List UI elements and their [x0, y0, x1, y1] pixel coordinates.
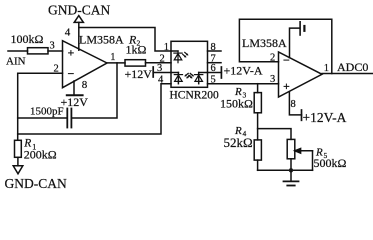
svg-text:500kΩ: 500kΩ [314, 156, 347, 170]
wire pin 2 (inverting input) left and down [18, 73, 63, 140]
svg-text:6: 6 [211, 63, 216, 74]
svg-text:GND-CAN: GND-CAN [5, 176, 67, 191]
svg-text:5: 5 [211, 75, 216, 86]
wire HCNR200 pin 5 to op-amp U3 pin 3 [208, 83, 279, 85]
svg-text:HCNR200: HCNR200 [170, 90, 219, 102]
svg-text:8: 8 [82, 79, 88, 91]
node AIN input wire [8, 50, 28, 52]
wiper arrow of R5 [295, 150, 313, 152]
svg-text:−: − [68, 67, 75, 81]
wire bottom rail [258, 169, 313, 171]
svg-text:+: + [68, 46, 75, 60]
ground (analog) symbol [290, 170, 292, 181]
power +12V-A tick (pin 6) [220, 67, 222, 78]
power +12V-A tick (U3 pin 8) [301, 110, 303, 120]
svg-text:+: + [283, 79, 290, 93]
photodiode PD2 receive arrows [190, 73, 193, 75]
svg-text:4: 4 [65, 27, 71, 39]
ground GND-CAN bottom arrow [13, 166, 23, 174]
svg-text:8: 8 [211, 42, 216, 53]
capacitor C1 plates [66, 109, 68, 128]
resistor R2 1kΩ [125, 60, 146, 66]
wire U3 pin 8 stem to +12V-A [289, 92, 301, 115]
potentiometer R5 500kΩ body [287, 139, 295, 158]
wire R5 bottom to rail [290, 159, 292, 171]
photodiode PD1 inside (pins 3-4) [171, 73, 190, 84]
wire R2 to HCNR200 pin 2 [146, 62, 172, 64]
wire feedback loop (output to pin 2) [239, 19, 331, 73]
svg-text:3: 3 [157, 63, 162, 74]
svg-text:+12V: +12V [125, 67, 153, 81]
svg-text:100kΩ: 100kΩ [11, 32, 44, 46]
svg-text:1: 1 [110, 52, 115, 63]
wire output pin 1 of U1 [107, 62, 125, 64]
wire HCNR200 pin 7 stub [208, 62, 222, 64]
wire HCNR200 pin 6 stub [208, 72, 222, 74]
svg-text:52kΩ: 52kΩ [224, 135, 253, 150]
wire junction to R5 top [258, 129, 291, 140]
junction dot [289, 168, 293, 172]
svg-text:ADC0: ADC0 [337, 60, 368, 74]
svg-text:150kΩ: 150kΩ [220, 97, 253, 111]
svg-text:1: 1 [324, 63, 329, 74]
capacitor C1 wire right and feedback vertical [72, 63, 117, 118]
capacitor C1 1500pF wire left [18, 117, 67, 119]
wire R4 to bottom rail [257, 160, 259, 170]
svg-text:1kΩ: 1kΩ [126, 43, 147, 57]
svg-text:1500pF: 1500pF [30, 106, 64, 118]
optocoupler U2 HCNR200 box [171, 41, 208, 87]
wire output to ADC0 [322, 73, 373, 75]
wire HCNR200 pin 4 return to inverting node [18, 84, 171, 134]
op-amp U3 LM358A triangle [279, 52, 323, 97]
svg-text:LM358A: LM358A [242, 36, 287, 50]
svg-text:4: 4 [158, 75, 164, 86]
svg-text:2: 2 [270, 52, 275, 63]
svg-text:3: 3 [50, 41, 55, 52]
wire 100k to op-amp pin 3 [48, 50, 63, 52]
resistor 100kΩ (input) [28, 48, 49, 54]
svg-text:GND-CAN: GND-CAN [48, 3, 110, 18]
photodiode PD2 inside (pins 6-5) [189, 73, 208, 84]
wire op-amp pin 8 stem [73, 81, 75, 95]
LED D1 emission arrows [183, 54, 186, 56]
op-amp U1 LM358A triangle [63, 41, 108, 88]
svg-text:3: 3 [270, 74, 275, 85]
svg-text:+12V-A: +12V-A [303, 110, 347, 125]
power +12V tick (HCNR200 pin 3) [152, 67, 154, 77]
svg-text:−: − [283, 53, 290, 67]
resistor R1 200kΩ [15, 140, 22, 157]
wire pin5 node down to R3 [257, 84, 259, 93]
svg-text:+12V: +12V [61, 95, 89, 109]
svg-text:+12V-A: +12V-A [224, 64, 263, 78]
ground GND-CAN top triangle [74, 16, 83, 23]
svg-text:200kΩ: 200kΩ [24, 148, 57, 162]
resistor R4 52kΩ [254, 140, 261, 160]
wire wiper down to rail [312, 151, 314, 171]
power +12V tick (left op-amp) [67, 94, 83, 96]
wire +12V to pin 3 [153, 72, 171, 74]
wire top rail to HCNR200 pin 1 [79, 28, 171, 52]
svg-text:LM358A: LM358A [79, 33, 124, 47]
wire HCNR200 pin 8 stub [208, 50, 222, 52]
wire R3 to junction [257, 113, 259, 140]
resistor R3 150kΩ [254, 93, 261, 113]
svg-text:2: 2 [54, 64, 59, 75]
svg-text:8: 8 [291, 99, 296, 110]
svg-text:1: 1 [164, 42, 169, 53]
wire pin 4 stem from GND-CAN [78, 22, 80, 50]
power tick symbol on U3 top edge (pin 4) [290, 28, 300, 58]
svg-text:AIN: AIN [6, 56, 26, 68]
LED D1 inside (pins 1-2) [171, 51, 189, 63]
wire R1 to ground [17, 157, 19, 166]
photodiode PD1 receive arrows [185, 73, 188, 75]
